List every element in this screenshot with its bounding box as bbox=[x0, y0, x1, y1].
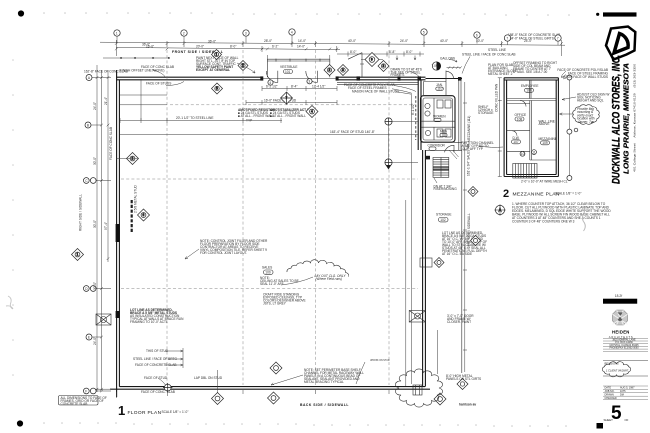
svg-text:16'-0" FACE OF STUD: 16'-0" FACE OF STUD bbox=[264, 99, 297, 103]
svg-text:FACE OF CONC SLAB: FACE OF CONC SLAB bbox=[141, 65, 174, 69]
diamond k7 bbox=[281, 92, 293, 104]
svg-text:HEIGHT AND SQL: HEIGHT AND SQL bbox=[577, 99, 604, 103]
corridor door arc bbox=[445, 145, 455, 152]
svg-text:6: 6 bbox=[143, 213, 145, 217]
grid bubbles top bbox=[114, 29, 561, 41]
svg-text:COUNTER 3 OF 48" COUNTERS ONE: COUNTER 3 OF 48" COUNTERS ONE W 3 bbox=[512, 220, 575, 224]
cloud interior marks bbox=[413, 385, 422, 395]
office partition vertical bbox=[530, 101, 532, 161]
diamond k6 bbox=[212, 83, 223, 94]
vestibule door swing right bbox=[306, 71, 318, 83]
svg-text:2'-0" x 10'-0" AT WIRE MESH CL: 2'-0" x 10'-0" AT WIRE MESH CL bbox=[521, 180, 568, 184]
vestibule interior dim line bbox=[262, 86, 337, 91]
svg-text:30'-0": 30'-0" bbox=[93, 282, 97, 290]
face of concrete notes inside bbox=[344, 83, 399, 93]
top dimension texts bbox=[142, 33, 560, 49]
svg-text:CONCRETE SLAB: CONCRETE SLAB bbox=[61, 402, 88, 406]
right wall of sales area bbox=[418, 80, 425, 387]
diamond k9 left bbox=[127, 153, 139, 165]
corner leader notes bottom-left bbox=[133, 349, 390, 394]
svg-text:8'-0": 8'-0" bbox=[406, 50, 412, 54]
svg-text:12'-4 1/2": 12'-4 1/2" bbox=[312, 84, 325, 88]
svg-text:1: 1 bbox=[118, 403, 125, 418]
steel frame note bbox=[391, 68, 422, 78]
svg-text:harrison av: harrison av bbox=[459, 403, 476, 407]
employee partition upper bbox=[530, 80, 532, 99]
svg-text:100: 100 bbox=[265, 271, 271, 275]
svg-text:SCALE 1/8" = 1'-0": SCALE 1/8" = 1'-0" bbox=[555, 192, 582, 196]
svg-text:1 CLIENT 04/28/87: 1 CLIENT 04/28/87 bbox=[606, 369, 629, 373]
employee room bottom wall bbox=[507, 99, 557, 104]
faint punch-dot row top bbox=[43, 12, 570, 16]
svg-text:LAP DBL ON STUD: LAP DBL ON STUD bbox=[194, 376, 223, 380]
svg-text:EXCEPT AT GENERAL: EXCEPT AT GENERAL bbox=[196, 68, 230, 72]
svg-text:SEAL 11'-0" AFF.: SEAL 11'-0" AFF. bbox=[260, 282, 284, 286]
storage east dim line bbox=[463, 82, 467, 372]
paint note bbox=[196, 56, 239, 72]
svg-text:21'-4": 21'-4" bbox=[104, 97, 108, 105]
svg-text:102: 102 bbox=[440, 218, 446, 222]
revision cloud entry bbox=[602, 362, 630, 377]
revision cloud bottom bbox=[395, 369, 442, 407]
control joint note bbox=[200, 239, 268, 255]
svg-text:RIGHT SIDE / SIDEWALL: RIGHT SIDE / SIDEWALL bbox=[79, 194, 83, 231]
corner target circle bbox=[163, 383, 172, 392]
dimension slash ticks top bbox=[115, 42, 563, 50]
grid dashed horizontals bbox=[121, 179, 418, 289]
svg-text:14'-0": 14'-0" bbox=[297, 45, 305, 49]
mezz notes bbox=[512, 202, 611, 224]
men fixtures bbox=[437, 129, 443, 137]
bottom dim ticks bbox=[117, 390, 389, 398]
svg-text:401 College Street Abilen: 401 College Street Abilene, Kansas 67410… bbox=[633, 63, 637, 172]
svg-text:HEIDEN: HEIDEN bbox=[612, 330, 630, 335]
sales layout cloud arc bbox=[287, 260, 349, 277]
svg-text:40'-0": 40'-0" bbox=[440, 39, 448, 43]
svg-text:6'-2": 6'-2" bbox=[272, 45, 278, 49]
svg-text:SCALE 1/8" = 1'-0": SCALE 1/8" = 1'-0" bbox=[162, 410, 189, 414]
svg-text:CORRIDOR: CORRIDOR bbox=[428, 143, 446, 147]
svg-text:7: 7 bbox=[557, 36, 559, 40]
svg-text:36'-0": 36'-0" bbox=[208, 40, 216, 44]
svg-text:24'-0": 24'-0" bbox=[93, 337, 97, 345]
svg-text:108: 108 bbox=[517, 117, 523, 121]
jan dim slashes bbox=[447, 66, 462, 69]
door circle 3 bbox=[307, 79, 312, 84]
keynote circles in mezz bbox=[520, 151, 525, 156]
keynote texts middle bbox=[238, 108, 314, 123]
svg-text:MEZZANINE (111): MEZZANINE (111) bbox=[467, 116, 471, 142]
top wall (front side) bbox=[116, 77, 462, 80]
svg-text:SALES: SALES bbox=[262, 266, 272, 270]
svg-text:FACE OF CONC SLAB: FACE OF CONC SLAB bbox=[109, 127, 113, 160]
svg-text:STORAGE: STORAGE bbox=[478, 111, 494, 115]
jan door arc bbox=[446, 71, 453, 78]
svg-text:24'-0": 24'-0" bbox=[93, 102, 97, 110]
svg-text:STORAGE: STORAGE bbox=[436, 213, 452, 217]
svg-text:A" MAX. SEE 1/8 A 7.00: A" MAX. SEE 1/8 A 7.00 bbox=[513, 70, 547, 74]
svg-text:3: 3 bbox=[342, 68, 344, 72]
diamond k3b bbox=[324, 65, 335, 76]
svg-text:109: 109 bbox=[542, 141, 548, 145]
mezz left dim line bbox=[498, 78, 502, 177]
revision cloud flag note bbox=[573, 105, 600, 124]
faint punch-dot row bottom bbox=[43, 422, 567, 427]
diamond left D row bbox=[72, 249, 84, 261]
svg-text:E: E bbox=[88, 335, 90, 339]
bottom-right black square bbox=[597, 423, 604, 429]
svg-text:RISER/NOSING: RISER/NOSING bbox=[434, 187, 458, 191]
bold rotated note bar bbox=[131, 200, 133, 232]
diamond k3 bbox=[338, 65, 349, 76]
offset framing note bbox=[513, 61, 557, 74]
inside dim line bbox=[120, 79, 282, 123]
svg-text:97'-4": 97'-4" bbox=[104, 222, 108, 230]
diamond k8 bbox=[306, 106, 318, 118]
grid bubble stems bbox=[117, 35, 558, 45]
svg-text:OF: OF bbox=[625, 418, 629, 422]
adjust old sign note bbox=[577, 93, 609, 103]
left wall (right side/sidewall) bbox=[117, 70, 120, 397]
svg-text:ABOVE: ABOVE bbox=[539, 122, 550, 126]
mezz internal door arcs bbox=[512, 101, 526, 136]
section marker circle bbox=[432, 62, 441, 70]
svg-text:106: 106 bbox=[526, 89, 532, 93]
svg-text:TYP: TYP bbox=[246, 119, 252, 123]
svg-text:DM: DM bbox=[620, 393, 624, 396]
svg-text:9: 9 bbox=[371, 58, 373, 62]
vestibule threshold line bbox=[262, 78, 337, 80]
svg-text:PANELS ON STL GIRTS: PANELS ON STL GIRTS bbox=[446, 377, 481, 381]
left wall detail box bbox=[96, 314, 111, 325]
dw bottom bbox=[507, 151, 557, 160]
svg-text:2: 2 bbox=[329, 68, 331, 72]
svg-text:2 5/8 METAL STUD: 2 5/8 METAL STUD bbox=[134, 184, 138, 213]
office bottom bbox=[507, 130, 530, 132]
svg-text:10: 10 bbox=[521, 152, 525, 156]
svg-text:2: 2 bbox=[242, 64, 244, 68]
svg-text:EMPLOYEE: EMPLOYEE bbox=[521, 84, 539, 88]
detail box at grid bbox=[409, 311, 426, 323]
svg-text:8'-0": 8'-0" bbox=[230, 45, 236, 49]
svg-text:28'-0": 28'-0" bbox=[264, 39, 272, 43]
svg-text:UPR BK ON STUD: UPR BK ON STUD bbox=[370, 360, 390, 362]
vestibule door swing left bbox=[266, 71, 278, 83]
svg-text:1: 1 bbox=[116, 31, 118, 35]
heiden octagon logo bbox=[612, 310, 627, 325]
mezz right keynote line bbox=[568, 78, 570, 179]
faint punch-dot column left bbox=[12, 59, 14, 376]
left dim texts rotated bbox=[93, 97, 108, 345]
svg-text:FLOOR PLAN: FLOOR PLAN bbox=[128, 410, 162, 416]
svg-text:4: 4 bbox=[269, 81, 271, 85]
svg-text:JSTS, LT GREY: JSTS, LT GREY bbox=[263, 302, 287, 306]
door detail note bbox=[447, 314, 474, 324]
diamond k2 bbox=[238, 61, 248, 71]
restroom west dashed line bbox=[415, 96, 417, 140]
svg-text:101: 101 bbox=[285, 70, 291, 74]
svg-text:MEZZANINE PLAN: MEZZANINE PLAN bbox=[513, 192, 560, 198]
address rows bbox=[609, 339, 639, 350]
vestibule stud dim line bbox=[246, 100, 337, 105]
dimension slash ticks left bbox=[96, 76, 110, 392]
metal panels leader bbox=[437, 330, 439, 374]
svg-text:BACK SIDE / SIDEWALL: BACK SIDE / SIDEWALL bbox=[300, 403, 349, 407]
row3 dot ticks bbox=[120, 57, 169, 59]
svg-text:20'-1 1/2" TO STEEL LINE: 20'-1 1/2" TO STEEL LINE bbox=[176, 116, 213, 120]
svg-text:4: 4 bbox=[311, 110, 313, 114]
svg-text:MASON FACE OF WALL STUDS: MASON FACE OF WALL STUDS bbox=[352, 89, 399, 93]
pencil scribble right bbox=[582, 206, 585, 231]
diamond k4 big bbox=[365, 53, 379, 67]
svg-text:METAL SHEET 2: METAL SHEET 2 bbox=[488, 72, 513, 76]
door circle 4 bbox=[268, 80, 273, 85]
pencil scribble left edge bbox=[6, 296, 13, 309]
diamond k5 bbox=[378, 61, 389, 72]
grid bubbles left bbox=[83, 75, 96, 394]
column box on wall at stair bbox=[425, 156, 430, 160]
top-right black bar bbox=[603, 12, 637, 16]
svg-text:FOR CONTROL JOINT LAYOUT.: FOR CONTROL JOINT LAYOUT. bbox=[200, 251, 247, 255]
vestibule storefront bbox=[262, 59, 337, 80]
svg-text:3: 3 bbox=[383, 64, 385, 68]
mezz top wall bbox=[504, 78, 558, 80]
svg-text:SHEET: SHEET bbox=[604, 418, 614, 422]
svg-text:184'-0" FACE OF STEEL GIRTS: 184'-0" FACE OF STEEL GIRTS bbox=[508, 36, 554, 40]
svg-text:MEN: MEN bbox=[440, 130, 448, 134]
svg-text:WOMEN: WOMEN bbox=[433, 115, 446, 119]
svg-text:CHECKED: CHECKED bbox=[605, 397, 617, 400]
svg-text:VESTIBULE: VESTIBULE bbox=[280, 65, 298, 69]
revisions box bbox=[603, 361, 648, 377]
svg-text:6'-8": 6'-8" bbox=[389, 50, 395, 54]
svg-text:F: F bbox=[85, 389, 87, 393]
top dimension lines bbox=[100, 40, 565, 63]
svg-text:■ AT ALL - FRONT WALL: ■ AT ALL - FRONT WALL bbox=[238, 114, 274, 118]
svg-text:14'-0": 14'-0" bbox=[298, 39, 306, 43]
svg-text:8'-0": 8'-0" bbox=[350, 50, 356, 54]
svg-text:107: 107 bbox=[513, 140, 519, 144]
svg-text:FACE OF STUD: FACE OF STUD bbox=[144, 376, 168, 380]
svg-text:STEEL LINE / FACE OF CONC SLAB: STEEL LINE / FACE OF CONC SLAB bbox=[462, 53, 516, 57]
svg-text:40'-0": 40'-0" bbox=[348, 39, 356, 43]
svg-text:Owner. Typ: Owner. Typ bbox=[578, 120, 594, 124]
mezz left wall bbox=[504, 78, 507, 177]
storage east wall bbox=[459, 80, 462, 373]
svg-text:110: 110 bbox=[437, 87, 442, 91]
entrance slab note bbox=[488, 63, 517, 76]
wall highlight segments bbox=[116, 224, 120, 242]
diamond storage keynotes bbox=[468, 187, 478, 197]
divider bar bbox=[603, 299, 637, 304]
jan closet bbox=[424, 71, 447, 96]
svg-text:FRAMING TO 10'-0" ACTL: FRAMING TO 10'-0" ACTL bbox=[130, 320, 168, 324]
svg-text:24'-0": 24'-0" bbox=[400, 39, 408, 43]
slope leader bbox=[348, 53, 364, 77]
mezz bottom wall bbox=[504, 175, 558, 177]
svg-text:1: 1 bbox=[77, 253, 79, 257]
column grid dashed verticals bbox=[167, 50, 389, 385]
svg-text:3: 3 bbox=[308, 80, 310, 84]
partition channel note bbox=[461, 141, 494, 151]
svg-text:163'-4" FACE OF STUD 140'-8": 163'-4" FACE OF STUD 140'-8" bbox=[330, 130, 375, 134]
keynote circle right 2 bbox=[385, 159, 392, 169]
mezz stair bbox=[513, 164, 537, 179]
date rows bbox=[605, 387, 636, 400]
svg-text:METAL BRACING TYPICAL: METAL BRACING TYPICAL bbox=[304, 380, 344, 384]
svg-text:18.2f: 18.2f bbox=[615, 294, 622, 298]
perimeter base note bbox=[304, 368, 364, 384]
diamond k1 bbox=[212, 50, 222, 60]
svg-text:10'-0" AFF TYP: 10'-0" AFF TYP bbox=[461, 147, 483, 151]
svg-text:11: 11 bbox=[532, 150, 536, 154]
north arrow bbox=[494, 204, 506, 216]
svg-text:AT 16" O.C. EA SIDE: AT 16" O.C. EA SIDE bbox=[442, 252, 472, 256]
restroom partition bbox=[421, 98, 455, 140]
keynote circle right 1 bbox=[385, 118, 392, 125]
interior dim verticals bbox=[406, 95, 412, 386]
lot line note left bbox=[130, 308, 184, 324]
svg-text:4: 4 bbox=[291, 30, 293, 34]
svg-text:20'-0": 20'-0" bbox=[196, 45, 204, 49]
storage keynote text bbox=[478, 105, 494, 115]
sales finish note bbox=[263, 293, 306, 306]
registration dot bottom-left bbox=[17, 420, 23, 426]
svg-text:7: 7 bbox=[286, 96, 288, 100]
small dot near top bar bbox=[596, 13, 599, 16]
interior finish line below front wall bbox=[337, 82, 418, 84]
svg-text:30'-0": 30'-0" bbox=[93, 157, 97, 165]
svg-text:3: 3 bbox=[245, 31, 247, 35]
svg-text:(Where Field runs): (Where Field runs) bbox=[316, 277, 342, 281]
svg-text:7.09: 7.09 bbox=[432, 64, 438, 68]
svg-text:LEFT SIDE / SIDEWALL: LEFT SIDE / SIDEWALL bbox=[467, 213, 471, 248]
duckwall logo bbox=[606, 27, 635, 60]
svg-text:B: B bbox=[87, 123, 89, 127]
svg-text:2: 2 bbox=[503, 188, 509, 200]
svg-text:16'-0": 16'-0" bbox=[146, 45, 154, 49]
main stair bbox=[433, 150, 459, 177]
storage note block bbox=[442, 231, 488, 256]
svg-text:FRAME'S: FRAME'S bbox=[391, 73, 405, 77]
column boxes on front wall bbox=[260, 76, 461, 80]
dim line above wall right bbox=[337, 52, 424, 61]
svg-text:1: 1 bbox=[216, 53, 218, 57]
bottom wall (back side) bbox=[110, 387, 430, 390]
diamond lower-left bbox=[138, 209, 150, 221]
registration dot top-left bbox=[18, 10, 24, 16]
svg-text:30'-0": 30'-0" bbox=[93, 220, 97, 228]
svg-text:MASON FACE OF WALL STUDS: MASON FACE OF WALL STUDS bbox=[561, 75, 608, 79]
diamond bottom row bbox=[270, 362, 282, 374]
concrete note far right bbox=[557, 68, 608, 79]
svg-text:5: 5 bbox=[216, 87, 218, 91]
svg-text:STEEL LINE: STEEL LINE bbox=[488, 48, 506, 52]
svg-text:FACE OF STUDS: FACE OF STUDS bbox=[146, 82, 171, 86]
svg-text:MEZZANINE: MEZZANINE bbox=[539, 137, 557, 141]
svg-text:7: 7 bbox=[506, 36, 508, 40]
svg-text:8'-4": 8'-4" bbox=[291, 84, 297, 88]
svg-text:6: 6 bbox=[476, 33, 478, 37]
svg-text:LONG PRAIRIE, MINNESOTA: LONG PRAIRIE, MINNESOTA bbox=[622, 63, 631, 174]
diamond door detail bbox=[434, 258, 444, 268]
svg-text:2: 2 bbox=[183, 31, 185, 35]
svg-text:CONC FILLED PAN: CONC FILLED PAN bbox=[495, 83, 499, 112]
svg-text:■ AT ALL - FRONT WALL: ■ AT ALL - FRONT WALL bbox=[270, 114, 306, 118]
mezz right wall bbox=[556, 78, 558, 177]
svg-text:CLOSER. PAINT: CLOSER. PAINT bbox=[447, 320, 471, 324]
corridor label bbox=[421, 142, 462, 150]
dimensions note box bbox=[59, 396, 107, 407]
svg-text:5: 5 bbox=[423, 30, 425, 34]
women fixtures bbox=[425, 103, 430, 108]
restroom outer wall bbox=[421, 96, 456, 143]
